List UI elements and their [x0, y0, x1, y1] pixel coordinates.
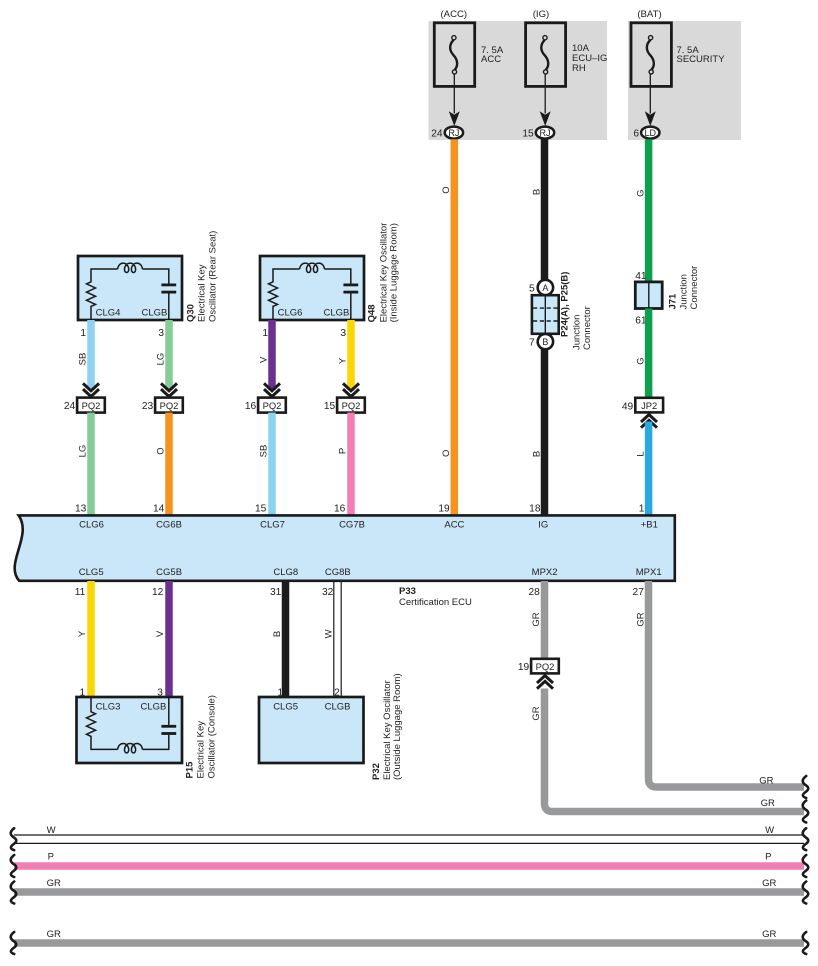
- svg-text:19: 19: [518, 662, 530, 673]
- gray background panel 2 (BAT fuse): [628, 21, 741, 140]
- svg-text:(Inside Luggage Room): (Inside Luggage Room): [388, 223, 399, 322]
- Q30 internal circuit: resistor / inductor / capacitor: [87, 269, 118, 320]
- connector PQ2 (23): [155, 398, 183, 413]
- svg-text:PQ2: PQ2: [263, 400, 282, 411]
- wire LG below PQ2 (24): [87, 413, 95, 516]
- svg-text:RJ: RJ: [540, 128, 551, 138]
- wire B (IG) upper: [541, 139, 549, 280]
- svg-text:19: 19: [438, 504, 450, 515]
- svg-text:(BAT): (BAT): [637, 9, 661, 20]
- svg-text:16: 16: [334, 504, 346, 515]
- svg-text:CLGB: CLGB: [325, 702, 351, 713]
- svg-text:Y: Y: [338, 357, 349, 364]
- svg-text:CLG6: CLG6: [79, 520, 104, 531]
- chevron up below JP2: [641, 415, 657, 422]
- svg-text:15: 15: [255, 504, 267, 515]
- svg-text:V: V: [155, 630, 166, 637]
- P15 internal circuit: resistor / inductor / capacitor: [87, 697, 118, 749]
- wire LG from Q30 pin 3: [165, 320, 173, 390]
- svg-text:Connector: Connector: [689, 266, 700, 310]
- wire B from pin 31 to P32: [282, 581, 290, 697]
- svg-text:1: 1: [262, 328, 268, 339]
- fuse ACC element: [450, 40, 457, 70]
- svg-text:7: 7: [529, 337, 535, 348]
- svg-text:B: B: [531, 189, 542, 195]
- svg-text:14: 14: [153, 504, 165, 515]
- svg-text:PQ2: PQ2: [160, 400, 179, 411]
- wire V from pin 12 to P15: [165, 581, 173, 697]
- svg-text:O: O: [156, 447, 167, 454]
- svg-text:O: O: [441, 450, 452, 457]
- wire G (BAT) upper: [645, 139, 653, 282]
- svg-text:CLG5: CLG5: [273, 702, 298, 713]
- svg-text:32: 32: [322, 587, 334, 598]
- svg-text:GR: GR: [635, 612, 646, 626]
- svg-text:GR: GR: [47, 878, 61, 889]
- svg-text:27: 27: [633, 587, 645, 598]
- svg-text:31: 31: [270, 587, 282, 598]
- connector PQ2 (19): [531, 659, 559, 674]
- svg-text:G: G: [635, 357, 646, 364]
- svg-text:JP2: JP2: [641, 400, 657, 411]
- svg-text:B: B: [531, 451, 542, 457]
- svg-text:CLGB: CLGB: [324, 307, 350, 318]
- svg-text:ACC: ACC: [481, 54, 501, 65]
- wire B (IG) lower: [541, 349, 549, 516]
- svg-text:Q30: Q30: [185, 304, 196, 322]
- wire Y from Q48 pin 3: [347, 320, 355, 390]
- svg-text:28: 28: [528, 587, 540, 598]
- svg-text:GR: GR: [762, 929, 776, 940]
- svg-text:5: 5: [529, 284, 535, 295]
- svg-text:12: 12: [152, 587, 164, 598]
- wire O (ACC) vertical: [451, 139, 459, 515]
- junction connector P25(B) circle B: [538, 334, 553, 349]
- Q48 internal circuit: resistor / inductor / capacitor: [269, 269, 300, 320]
- svg-text:ACC: ACC: [444, 520, 464, 531]
- junction connector P24/P25 body: [532, 295, 559, 334]
- svg-text:SB: SB: [78, 353, 89, 366]
- svg-text:SECURITY: SECURITY: [677, 54, 726, 65]
- svg-text:(Outside Luggage Room): (Outside Luggage Room): [392, 673, 403, 780]
- chevron down to PQ2 (16): [264, 383, 280, 390]
- svg-text:RJ: RJ: [448, 128, 459, 138]
- svg-text:18: 18: [529, 504, 541, 515]
- svg-text:O: O: [441, 186, 452, 193]
- squiggle right end P wire: [803, 855, 809, 877]
- svg-text:Certification ECU: Certification ECU: [399, 597, 472, 608]
- svg-text:3: 3: [340, 328, 346, 339]
- wire P horizontal: [14, 862, 804, 870]
- svg-text:CG6B: CG6B: [156, 520, 182, 531]
- connector LD (6): [641, 127, 659, 139]
- svg-text:V: V: [259, 356, 270, 363]
- chevron down to PQ2 (15): [343, 383, 359, 390]
- svg-text:CG7B: CG7B: [339, 520, 365, 531]
- svg-text:+B1: +B1: [641, 520, 658, 531]
- svg-text:CG5B: CG5B: [156, 567, 182, 578]
- svg-text:Q48: Q48: [367, 304, 378, 322]
- connector RJ (15): [536, 127, 554, 139]
- fuse IG box: [526, 23, 566, 87]
- oscillator Q30 box: [78, 256, 182, 320]
- svg-text:23: 23: [142, 401, 154, 412]
- svg-text:1: 1: [639, 504, 645, 515]
- svg-text:24: 24: [64, 401, 76, 412]
- svg-text:CLGB: CLGB: [142, 307, 168, 318]
- squiggle left end bottom GR wire: [11, 932, 17, 954]
- connector RJ (24): [445, 127, 463, 139]
- svg-text:G: G: [635, 190, 646, 197]
- wire GR horizontal (bottom): [14, 939, 804, 947]
- gray background panel 1 (ACC/IG fuses): [429, 21, 608, 140]
- svg-text:L: L: [635, 451, 646, 456]
- chevron down to PQ2 (24): [83, 383, 99, 390]
- svg-text:IG: IG: [538, 520, 548, 531]
- wire GR MPX1 vertical + elbow to right edge: [649, 581, 805, 787]
- svg-text:(ACC): (ACC): [440, 9, 467, 20]
- svg-text:MPX2: MPX2: [532, 567, 558, 578]
- svg-text:LG: LG: [156, 353, 167, 366]
- svg-text:1: 1: [80, 328, 86, 339]
- squiggle right end GR wire: [803, 882, 809, 904]
- wire GR from MPX2 (pin 28): [541, 581, 549, 659]
- wire arrow fuse ACC to connector RJ: [453, 74, 455, 114]
- svg-text:GR: GR: [759, 775, 773, 786]
- svg-text:CLG8: CLG8: [273, 567, 298, 578]
- wire GR horizontal (third): [14, 888, 804, 896]
- squiggle left end W wire: [11, 828, 17, 850]
- connector PQ2 (15): [337, 398, 365, 413]
- wire arrow fuse IG to connector RJ: [544, 74, 546, 114]
- fuse BAT (SECURITY) box: [631, 23, 671, 87]
- svg-text:P33: P33: [399, 586, 416, 597]
- wire arrow fuse BAT to connector LD: [649, 74, 651, 114]
- svg-text:Junction: Junction: [572, 315, 583, 350]
- svg-text:Y: Y: [77, 630, 88, 637]
- svg-text:W: W: [47, 825, 56, 836]
- svg-text:LD: LD: [645, 128, 657, 138]
- wire Y from pin 11 to P15: [87, 581, 95, 697]
- svg-text:B: B: [542, 337, 548, 347]
- svg-text:MPX1: MPX1: [636, 567, 662, 578]
- svg-text:Electrical Key: Electrical Key: [197, 264, 208, 322]
- svg-text:B: B: [272, 631, 283, 637]
- svg-text:SB: SB: [259, 445, 270, 458]
- squiggle right end MPX2 wire: [803, 801, 809, 823]
- connector PQ2 (24): [77, 398, 105, 413]
- svg-text:P24(A), P25(B): P24(A), P25(B): [560, 272, 571, 337]
- wire SB below PQ2 (16): [268, 413, 276, 516]
- svg-text:A: A: [542, 283, 548, 293]
- svg-text:13: 13: [75, 504, 87, 515]
- svg-text:Oscillator (Console): Oscillator (Console): [207, 695, 218, 778]
- svg-text:LG: LG: [78, 445, 89, 458]
- svg-text:CLGB: CLGB: [141, 702, 167, 713]
- svg-text:CG8B: CG8B: [325, 567, 351, 578]
- squiggle left end GR wire: [11, 882, 17, 904]
- wire SB from Q30 pin 1: [87, 320, 95, 390]
- svg-text:GR: GR: [761, 798, 775, 809]
- wire GR MPX2 vertical + elbow to right edge: [545, 689, 805, 812]
- squiggle left end P wire: [11, 855, 17, 877]
- svg-text:GR: GR: [531, 706, 542, 720]
- svg-text:P: P: [338, 448, 349, 454]
- svg-text:P: P: [765, 852, 771, 863]
- wire O below PQ2 (23): [165, 413, 173, 516]
- svg-text:CLG3: CLG3: [96, 702, 121, 713]
- svg-text:PQ2: PQ2: [342, 400, 361, 411]
- svg-text:RH: RH: [572, 63, 586, 74]
- svg-text:Junction: Junction: [679, 274, 690, 309]
- svg-text:CLG6: CLG6: [278, 307, 303, 318]
- chevron up below PQ2 (19): [537, 676, 553, 683]
- connector PQ2 (16): [258, 398, 286, 413]
- svg-text:J71: J71: [668, 293, 679, 310]
- svg-text:Connector: Connector: [582, 306, 593, 350]
- fuse IG element: [541, 40, 548, 70]
- wire V from Q48 pin 1: [268, 320, 276, 390]
- svg-text:Oscillator (Rear Seat): Oscillator (Rear Seat): [208, 231, 219, 322]
- svg-text:3: 3: [158, 328, 164, 339]
- wire W from pin 32 to P32 (double line): [333, 581, 335, 697]
- wire L (+B1): [645, 422, 653, 516]
- junction connector P24(A) circle A: [538, 280, 553, 295]
- connector JP2 (49): [635, 398, 663, 413]
- wire P below PQ2 (15): [347, 413, 355, 516]
- oscillator P32 box: [259, 697, 364, 763]
- svg-text:W: W: [765, 825, 774, 836]
- svg-text:PQ2: PQ2: [536, 661, 555, 672]
- squiggle right end bottom GR wire: [803, 932, 809, 954]
- svg-text:(IG): (IG): [533, 9, 550, 20]
- svg-text:GR: GR: [47, 929, 61, 940]
- svg-text:15: 15: [324, 401, 336, 412]
- squiggle right end W wire: [803, 828, 809, 850]
- svg-text:GR: GR: [762, 878, 776, 889]
- svg-text:24: 24: [431, 128, 443, 139]
- svg-text:11: 11: [75, 587, 86, 598]
- oscillator Q48 box: [260, 256, 364, 320]
- fuse ACC 7.5A box: [434, 23, 474, 87]
- fuse BAT element: [647, 40, 654, 70]
- svg-text:P: P: [48, 852, 54, 863]
- svg-text:PQ2: PQ2: [82, 400, 101, 411]
- svg-text:15: 15: [522, 128, 534, 139]
- oscillator P15 box: [77, 697, 183, 763]
- svg-text:P32: P32: [371, 763, 382, 780]
- svg-text:CLG4: CLG4: [96, 307, 121, 318]
- svg-text:CLG7: CLG7: [260, 520, 285, 531]
- ECU P33 band: [15, 515, 675, 580]
- svg-text:6: 6: [633, 128, 639, 139]
- squiggle right end MPX1 wire: [803, 776, 809, 798]
- svg-text:16: 16: [245, 401, 257, 412]
- svg-text:Electrical Key: Electrical Key: [196, 721, 207, 779]
- svg-text:CLG5: CLG5: [79, 567, 104, 578]
- svg-text:49: 49: [622, 401, 634, 412]
- svg-text:W: W: [324, 629, 335, 638]
- wire G (BAT) mid: [645, 309, 653, 398]
- svg-text:P15: P15: [185, 761, 196, 779]
- chevron down to PQ2 (23): [161, 383, 177, 390]
- svg-text:GR: GR: [531, 612, 542, 626]
- wire W horizontal (double line): [14, 835, 804, 843]
